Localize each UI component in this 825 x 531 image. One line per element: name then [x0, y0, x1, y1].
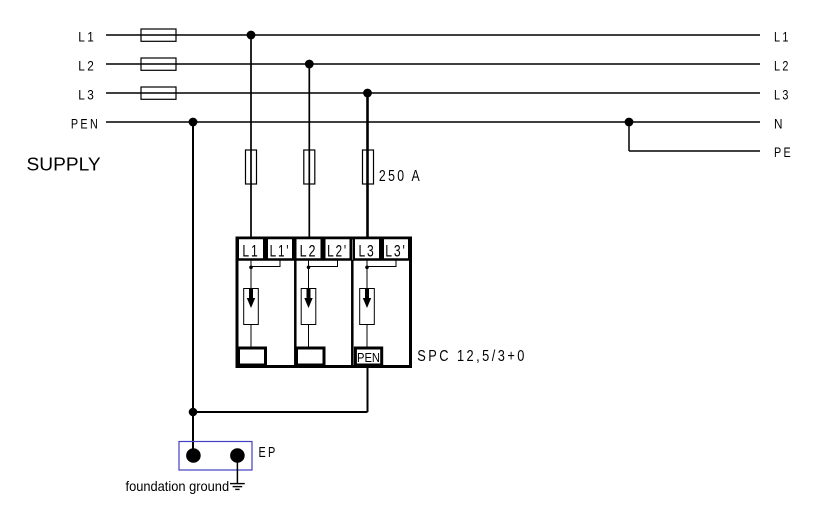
node label L2 left [78, 57, 96, 73]
wire module1 internal [251, 260, 280, 289]
node label L1 left [78, 28, 96, 44]
wire PEN to EP [192, 412, 194, 452]
wire N to PE drop [628, 122, 630, 151]
value label 250 A [379, 168, 422, 185]
wire module3 internal [367, 260, 396, 289]
terminal L1 [238, 238, 265, 260]
svg-text:L3: L3 [358, 242, 375, 260]
wire L3 [106, 92, 760, 94]
EP terminal dot 1 [186, 448, 201, 463]
wire EP to ground [236, 456, 238, 484]
svg-text:SPC 12,5/3+0: SPC 12,5/3+0 [417, 348, 527, 365]
svg-text:L2': L2' [327, 242, 348, 260]
wire L2 [106, 63, 760, 65]
svg-text:L1: L1 [242, 242, 259, 260]
junction PEN bottom [189, 408, 198, 417]
svg-text:250 A: 250 A [379, 168, 422, 185]
wire L1 [106, 34, 760, 36]
node label PE right [774, 144, 793, 160]
node label L3 left [78, 86, 96, 102]
terminal L1' [267, 238, 294, 260]
label EP [259, 445, 278, 461]
svg-text:EP: EP [259, 445, 278, 461]
svg-text:L3: L3 [774, 86, 791, 102]
fuse F4 (vertical, L1 branch) [246, 150, 257, 184]
svg-text:PEN: PEN [71, 115, 100, 131]
junction node PEN tap [189, 118, 198, 127]
SPD outline U1 [237, 238, 411, 367]
terminal L2 [295, 238, 322, 260]
fuse F1 (L1 line) [141, 29, 176, 41]
divider module 2/3 [351, 260, 354, 366]
wire module2 internal [309, 260, 338, 289]
junction module2 [307, 266, 311, 270]
node label PEN left [71, 115, 100, 131]
fuse F3 (L3 line) [141, 87, 176, 99]
varistor RV2 [301, 289, 316, 325]
label SUPPLY [27, 155, 101, 175]
svg-text:L2: L2 [300, 242, 318, 260]
svg-text:foundation ground: foundation ground [126, 478, 230, 494]
node label N right [774, 115, 785, 131]
svg-text:L3: L3 [78, 86, 96, 102]
EP terminal dot 2 [230, 448, 245, 463]
wire PEN [106, 121, 760, 123]
fuse F2 (L2 line) [141, 58, 176, 70]
svg-text:SUPPLY: SUPPLY [27, 155, 101, 175]
terminal L3 [354, 238, 381, 260]
fuse F6 (vertical, L3 branch) [363, 150, 374, 184]
wire PE [629, 150, 760, 152]
wire varistor2 to terminal [308, 325, 310, 349]
svg-text:PE: PE [774, 144, 793, 160]
svg-text:L3': L3' [385, 242, 406, 260]
label foundation ground [126, 478, 230, 494]
svg-text:L2: L2 [774, 57, 791, 73]
node label L2 right [774, 57, 791, 73]
wire varistor1 to terminal [250, 325, 252, 349]
junction node N/PE [625, 118, 634, 127]
terminal bottom 1 [239, 348, 266, 365]
svg-text:L1: L1 [774, 28, 791, 44]
terminal bottom 2 [297, 348, 325, 365]
wire varistor3 to terminal [366, 325, 368, 349]
terminal bottom PEN [355, 348, 381, 365]
wire riser to SPD PEN terminal [367, 366, 369, 412]
varistor RV3 [360, 289, 375, 325]
divider module 1/2 [294, 260, 297, 366]
EP busbar box [179, 442, 252, 471]
wire PEN dropper [192, 122, 194, 412]
wire L2 dropper [308, 64, 310, 238]
node label L3 right [774, 86, 791, 102]
svg-text:PEN: PEN [357, 351, 380, 365]
terminal L3' [383, 238, 410, 260]
node label L1 right [774, 28, 791, 44]
svg-text:L2: L2 [78, 57, 96, 73]
wire PEN bottom horizontal [193, 411, 368, 413]
svg-text:L1: L1 [78, 28, 96, 44]
label SPC 12,5/3+0 [417, 348, 527, 365]
svg-text:N: N [774, 115, 785, 131]
terminal L2' [324, 238, 351, 260]
varistor RV1 [244, 289, 259, 325]
wire L3 dropper [366, 93, 369, 238]
svg-text:L1': L1' [270, 242, 291, 260]
wire L1 dropper [250, 35, 252, 238]
junction node L3 tap [363, 89, 372, 98]
ground symbol [230, 484, 245, 490]
junction module1 [249, 266, 253, 270]
junction node L2 tap [305, 60, 314, 69]
fuse F5 (vertical, L2 branch) [304, 150, 315, 184]
junction module3 [365, 266, 369, 270]
junction node L1 tap [247, 31, 256, 40]
